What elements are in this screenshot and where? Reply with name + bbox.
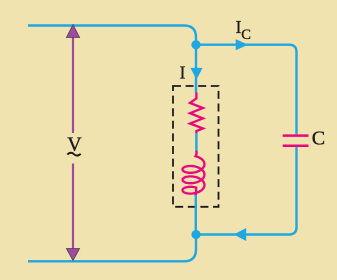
svg-text:I: I bbox=[180, 63, 186, 83]
junction dot bottom bbox=[191, 230, 200, 239]
arrow left on bottom wire bbox=[234, 228, 247, 241]
arrow IC right bbox=[236, 39, 248, 50]
capacitor C bottom plate bbox=[283, 144, 309, 147]
voltage arrow shaft upper bbox=[72, 36, 74, 133]
wire below inductor to bottom junction bbox=[195, 195, 197, 235]
svg-text:C: C bbox=[241, 27, 251, 43]
voltage arrowhead up bbox=[66, 25, 79, 38]
voltage arrowhead down bbox=[66, 249, 79, 261]
wire top-left horizontal bbox=[28, 26, 196, 46]
arrow I down bbox=[190, 68, 202, 80]
dashed impedance box bbox=[173, 86, 219, 207]
wire bottom-right from capacitor bbox=[196, 147, 297, 235]
voltage arrow shaft lower bbox=[72, 164, 74, 251]
tilde under V bbox=[67, 153, 80, 156]
inductor L coil bbox=[183, 152, 205, 197]
svg-text:C: C bbox=[312, 128, 325, 150]
wire bottom junction to bottom-left rail bbox=[28, 235, 196, 262]
wire between resistor and inductor bbox=[195, 133, 197, 152]
wire top-right to capacitor bbox=[196, 45, 297, 135]
junction dot top bbox=[191, 40, 200, 49]
wire branch down into box bbox=[195, 45, 197, 93]
capacitor C top plate bbox=[283, 134, 309, 137]
resistor R zigzag bbox=[190, 93, 203, 134]
